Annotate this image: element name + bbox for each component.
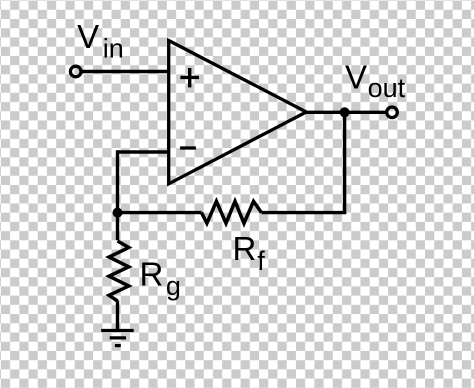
resistor Rg label xyxy=(140,255,181,300)
op-amp - input marking xyxy=(180,146,196,149)
svg-text:R: R xyxy=(140,255,164,292)
resistor Rg xyxy=(109,241,129,301)
ground xyxy=(101,331,134,346)
resistor Rf xyxy=(202,201,262,223)
wire op-amp output xyxy=(305,111,387,114)
op-amp + input marking xyxy=(180,68,199,87)
wire op-amp - input horizontal xyxy=(118,150,170,153)
wire feedback node to Rf xyxy=(118,211,202,214)
wire Rf to output node xyxy=(262,112,345,212)
svg-text:V: V xyxy=(345,59,367,96)
junction at output node xyxy=(340,107,350,117)
wire Vin to op-amp + input xyxy=(81,70,169,73)
svg-text:V: V xyxy=(77,18,99,55)
node Vout label xyxy=(345,59,406,104)
wire inverting input down to feedback node xyxy=(116,150,119,212)
svg-text:R: R xyxy=(233,230,257,267)
svg-text:f: f xyxy=(257,246,265,276)
resistor Rf label xyxy=(233,230,266,276)
svg-text:out: out xyxy=(368,73,406,103)
junction at feedback node xyxy=(113,208,123,218)
svg-text:in: in xyxy=(103,34,124,64)
wire node to Rg xyxy=(116,213,119,241)
op-amp U1 triangle xyxy=(169,41,307,184)
node Vin terminal xyxy=(70,66,81,77)
svg-text:g: g xyxy=(166,271,181,301)
wire Rg to ground xyxy=(116,301,119,331)
node Vout terminal xyxy=(387,107,398,118)
node Vin label xyxy=(77,18,124,64)
